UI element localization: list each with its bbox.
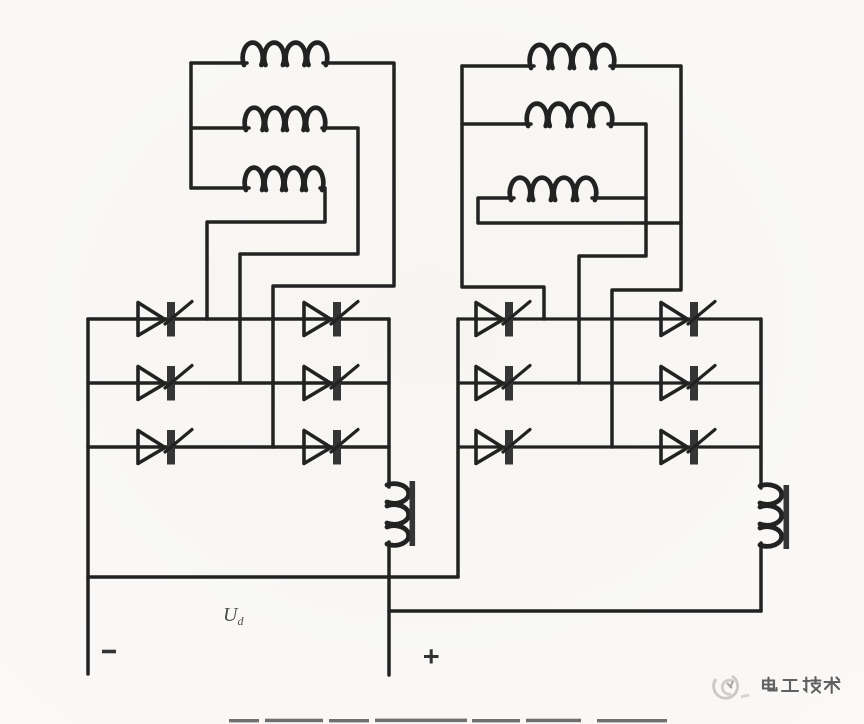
wire L1 right lead to staircase (273, 63, 394, 447)
thyristor VT3 (138, 366, 192, 401)
wire L2 left lead (191, 126, 249, 130)
wire R3 left lead loop (478, 198, 681, 223)
watermark text 电工技术 (763, 677, 840, 693)
reactor Lp2 winding (760, 485, 782, 547)
winding R3 (right transformer bottom phase) (510, 178, 596, 200)
thyristor VT5 (138, 430, 192, 465)
wire L3 right lead to staircase (207, 188, 325, 319)
label plus terminal (424, 649, 439, 663)
wire right bridge row 1 (458, 317, 761, 320)
thyristor VT8 (661, 302, 715, 337)
wire left bridge row 3 (88, 445, 389, 449)
watermark logo (714, 676, 749, 698)
thyristor VT6 (304, 430, 358, 465)
reactor Lp1 winding (387, 484, 409, 546)
reactor Lp2 core bar (784, 485, 790, 549)
winding L3 (left transformer bottom phase) (245, 168, 324, 190)
wire L1 left lead (191, 61, 247, 65)
wire right bridge row 3 (458, 445, 761, 448)
wire reactor Lp2 bottom lead (759, 543, 763, 611)
reactor Lp1 core bar (410, 481, 416, 546)
winding L1 (left transformer top phase) (243, 43, 328, 65)
wire R2 left lead (462, 122, 531, 126)
thyristor VT7 (476, 302, 530, 337)
label minus terminal (102, 650, 116, 654)
wire left bridge row 1 (88, 317, 389, 321)
thyristor VT10 (661, 366, 715, 401)
wire R1 right lead to right bus (610, 66, 681, 447)
wire reactor Lp1 bottom lead / positive lead (387, 542, 391, 675)
wire L3 left lead (191, 186, 249, 190)
wire right star bus to bridge row1 (462, 66, 544, 319)
wire right bridge left bus (456, 319, 460, 577)
thyristor VT9 (476, 366, 530, 401)
winding L2 (left transformer middle phase) (245, 108, 325, 130)
wire left bridge row 2 (88, 381, 389, 385)
thyristor VT11 (476, 430, 530, 465)
wire right bridge row 2 (458, 381, 761, 384)
thyristor VT1 (138, 302, 192, 337)
wire positive bus bottom (389, 609, 761, 613)
wire right bridge right bus (759, 319, 763, 488)
wire left negative bus (86, 319, 90, 674)
winding R2 (right transformer middle phase) (527, 104, 612, 126)
thyristor VT2 (304, 302, 358, 337)
wire left bridge right bus (387, 319, 391, 487)
wire L2 right lead to staircase (240, 128, 358, 383)
thyristor VT4 (304, 366, 358, 401)
cropped caption dashes at bottom (229, 719, 667, 723)
thyristor VT12 (661, 430, 715, 465)
wire R2 right lead to staircase (579, 124, 646, 383)
wire negative bus bottom (88, 575, 458, 579)
winding R1 (right transformer top phase) (530, 45, 615, 68)
wire R1 left lead (462, 64, 534, 68)
wire R3 right lead (592, 196, 646, 200)
wire left star bus (189, 63, 193, 188)
